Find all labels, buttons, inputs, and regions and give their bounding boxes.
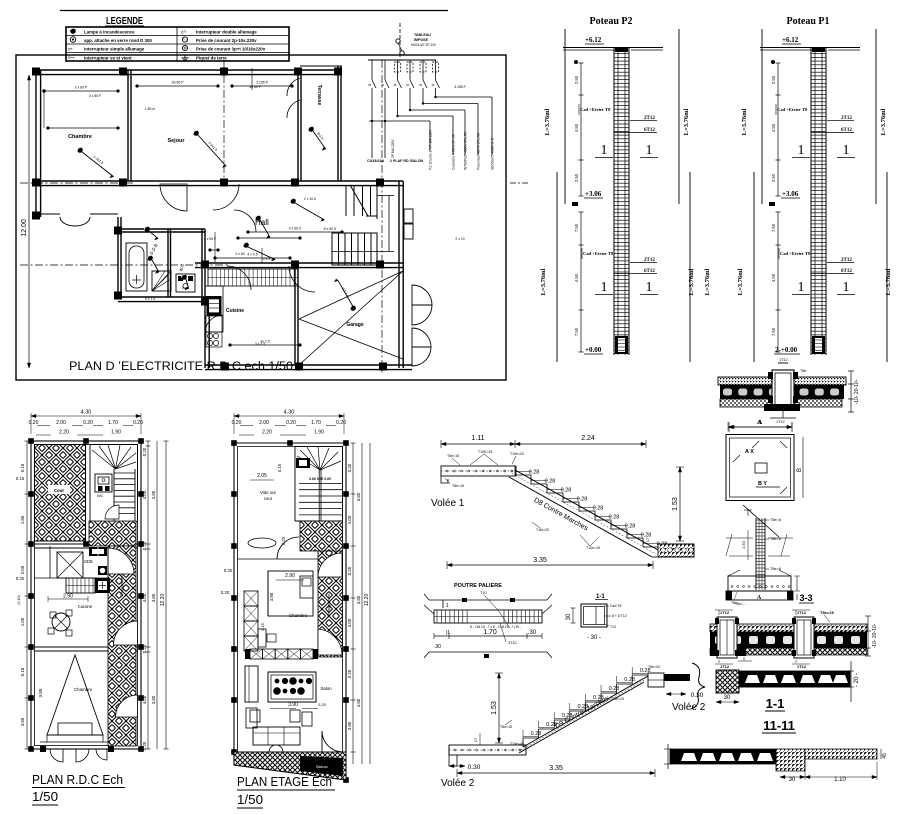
svg-text:1: 1 [601, 280, 608, 295]
svg-text:T10e=20: T10e=20 [510, 452, 524, 456]
svg-text:0.28: 0.28 [641, 533, 652, 539]
svg-text:T12: T12 [610, 625, 616, 629]
svg-text:3 x 60 F: 3 x 60 F [89, 94, 101, 98]
svg-text:T10e=15: T10e=15 [610, 697, 624, 701]
svg-text:T10: T10 [480, 591, 487, 595]
svg-text:L=3.76ml: L=3.76ml [737, 268, 744, 295]
svg-text:Lampe à incandescence: Lampe à incandescence [84, 30, 135, 35]
svg-text:3.155 P: 3.155 P [256, 81, 268, 85]
svg-text:0.30: 0.30 [468, 764, 481, 771]
svg-text:1T12: 1T12 [720, 610, 730, 615]
svg-text:Dégagement: Dégagement [326, 593, 331, 617]
svg-text:0.20: 0.20 [336, 420, 346, 426]
svg-text:4.30: 4.30 [284, 410, 295, 416]
svg-text:0.20: 0.20 [224, 568, 233, 573]
svg-text:T8e=8: T8e=8 [770, 518, 781, 522]
svg-text:Volée 2: Volée 2 [441, 778, 475, 789]
svg-text:1: 1 [646, 280, 653, 295]
svg-text:4 x 0.5: 4 x 0.5 [247, 253, 257, 257]
svg-text:4 x 66 S: 4 x 66 S [289, 227, 302, 231]
svg-text:Cad +Etrier T8: Cad +Etrier T8 [780, 251, 811, 256]
svg-text:4.30: 4.30 [81, 410, 92, 416]
svg-text:2.00: 2.00 [56, 420, 66, 426]
svg-text:0.28: 0.28 [545, 479, 556, 485]
svg-text:0.20: 0.20 [347, 669, 352, 678]
svg-text:0.20: 0.20 [232, 420, 242, 426]
svg-text:4 x 50 F: 4 x 50 F [204, 237, 216, 241]
svg-text:0.20: 0.20 [29, 420, 39, 426]
svg-text:7.50: 7.50 [771, 327, 776, 336]
svg-text:1.00: 1.00 [20, 617, 25, 626]
svg-text:A X: A X [745, 449, 754, 455]
svg-text:TABLEAU: TABLEAU [414, 33, 431, 37]
svg-text:2-+0.00: 2-+0.00 [775, 346, 798, 354]
svg-text:T8e=20: T8e=20 [648, 665, 660, 669]
svg-text:.30: .30 [434, 644, 441, 650]
svg-text:0.28: 0.28 [609, 686, 620, 692]
svg-text:A: A [757, 595, 762, 601]
svg-text:3T12: 3T12 [508, 641, 517, 645]
svg-text:T8e: T8e [731, 601, 737, 605]
svg-text:Poteau P2: Poteau P2 [589, 16, 632, 27]
svg-text:0.20: 0.20 [133, 420, 143, 426]
svg-text:INTERRUP 4000V 2PL.RC: INTERRUP 4000V 2PL.RC [464, 131, 468, 170]
svg-text:A: A [758, 420, 763, 426]
svg-text:4.00: 4.00 [142, 490, 147, 499]
svg-text:Interrupteur double allumage: Interrupteur double allumage [196, 30, 257, 35]
svg-text:+0.00: +0.00 [585, 346, 602, 354]
svg-text:WC: WC [97, 494, 104, 498]
svg-text:Cad T8: Cad T8 [610, 604, 621, 608]
svg-text:3.80: 3.80 [356, 595, 361, 604]
svg-text:T8e=15: T8e=15 [452, 484, 464, 488]
svg-text:1T12: 1T12 [797, 610, 807, 615]
svg-text:30: 30 [724, 695, 731, 701]
svg-text:Volée 2: Volée 2 [672, 702, 706, 713]
svg-text:|1: |1 [446, 630, 450, 636]
svg-text:0.30: 0.30 [691, 692, 704, 699]
svg-text:T10e=15: T10e=15 [586, 546, 600, 550]
svg-text:2.90: 2.90 [63, 594, 73, 600]
svg-text:Terrasse: Terrasse [316, 85, 322, 106]
svg-text:SECOURT 4000P 2+C: SECOURT 4000P 2+C [491, 137, 495, 170]
svg-text:Chambre: Chambre [289, 613, 308, 618]
svg-text:1.70: 1.70 [311, 420, 321, 426]
svg-text:3.80: 3.80 [151, 695, 156, 704]
svg-text:5 x 1.5: 5 x 1.5 [145, 297, 155, 301]
svg-text:-10- 20-10-: -10- 20-10- [854, 379, 860, 404]
svg-text:T8e=15: T8e=15 [820, 610, 834, 615]
svg-text:Cuisiniere 4.65KV 2P+20: Cuisiniere 4.65KV 2P+20 [452, 134, 456, 170]
svg-text:3x 2.5: 3x 2.5 [260, 340, 269, 344]
svg-text:2 x 10: 2 x 10 [455, 237, 464, 241]
svg-text:4.50: 4.50 [574, 123, 579, 132]
svg-text:P.C.Douche 2PVT 16A 220V: P.C.Douche 2PVT 16A 220V [429, 129, 433, 170]
svg-text:45: 45 [406, 83, 410, 87]
svg-text:T10E=15: T10E=15 [478, 450, 492, 454]
svg-text:Volée 1: Volée 1 [431, 498, 465, 509]
svg-text:T8e=8: T8e=8 [770, 537, 781, 541]
svg-text:0.20: 0.20 [221, 590, 230, 595]
svg-text:MODULE 2P-220: MODULE 2P-220 [411, 43, 436, 47]
svg-text:12.00: 12.00 [21, 219, 28, 237]
svg-text:1: 1 [601, 143, 608, 158]
svg-text:(0.10): (0.10) [17, 595, 21, 604]
svg-text:4.00: 4.00 [347, 515, 352, 524]
svg-text:Cuisine: Cuisine [78, 604, 93, 609]
svg-text:Balcon: Balcon [316, 765, 328, 769]
svg-text:Cad +Etrier T8: Cad +Etrier T8 [583, 251, 614, 256]
svg-text:3.85: 3.85 [20, 717, 25, 726]
svg-text:2 x 0.5: 2 x 0.5 [263, 257, 273, 261]
svg-text:2.20: 2.20 [262, 430, 272, 436]
svg-text:+6.12: +6.12 [585, 36, 602, 44]
svg-text:45: 45 [419, 83, 423, 87]
svg-text:app. attache en verre rond D: app. attache en verre rond D 300 [84, 38, 152, 43]
svg-text:2.50: 2.50 [574, 75, 579, 84]
svg-text:3.85: 3.85 [38, 688, 43, 697]
svg-text:2 x 60: 2 x 60 [235, 252, 244, 256]
svg-text:1: 1 [798, 143, 805, 158]
svg-text:1.10: 1.10 [834, 777, 846, 783]
svg-text:0.20: 0.20 [142, 644, 147, 653]
svg-text:1.50: 1.50 [741, 540, 746, 549]
svg-text:7.50: 7.50 [771, 223, 776, 232]
svg-text:+6.12: +6.12 [782, 36, 799, 44]
svg-text:σⁿ: σⁿ [68, 47, 73, 52]
svg-text:1-1: 1-1 [766, 696, 785, 711]
svg-text:1T12: 1T12 [776, 420, 785, 424]
svg-text:2.90: 2.90 [285, 573, 295, 579]
svg-text:0.28: 0.28 [609, 515, 620, 521]
svg-text:0.28: 0.28 [593, 506, 604, 512]
svg-text:-10- 20-10-: -10- 20-10- [872, 623, 878, 648]
svg-text:17: 17 [645, 537, 650, 542]
svg-text:0.15: 0.15 [260, 622, 265, 631]
svg-text:2.00: 2.00 [259, 420, 269, 426]
svg-text:4.50: 4.50 [574, 273, 579, 282]
svg-text:Chambre: Chambre [74, 687, 93, 692]
svg-text:T8e: T8e [800, 369, 807, 373]
svg-text:45: 45 [381, 83, 385, 87]
svg-text:2.05: 2.05 [257, 473, 267, 479]
svg-text:3.35: 3.35 [533, 557, 547, 564]
svg-text:0.28: 0.28 [561, 488, 572, 494]
svg-text:3.80: 3.80 [356, 698, 361, 707]
svg-text:0.28: 0.28 [529, 470, 540, 476]
svg-text:0.20: 0.20 [318, 702, 327, 707]
svg-text:CU3A/16A: CU3A/16A [367, 159, 385, 163]
svg-text:2.50: 2.50 [574, 173, 579, 182]
svg-text:1: 1 [646, 143, 653, 158]
svg-text:11-11: 11-11 [763, 718, 795, 733]
svg-text:L=3.76ml: L=3.76ml [704, 268, 711, 295]
svg-text:0.28: 0.28 [624, 677, 635, 683]
svg-text:Cad +Etrier T8: Cad +Etrier T8 [777, 107, 808, 112]
svg-text:4.50: 4.50 [771, 123, 776, 132]
svg-text:B Y: B Y [758, 481, 767, 487]
svg-text:Interrupteur va et vient: Interrupteur va et vient [84, 55, 132, 60]
svg-text:Piquet de terre: Piquet de terre [196, 55, 227, 60]
svg-text:1.80 m: 1.80 m [145, 107, 156, 111]
svg-text:3 x 60 P: 3 x 60 P [75, 86, 88, 90]
svg-text:1.53: 1.53 [672, 497, 679, 511]
svg-text:Chambre: Chambre [68, 134, 92, 140]
svg-text:0.20: 0.20 [142, 447, 147, 456]
svg-text:2.05: 2.05 [20, 565, 25, 574]
svg-text:1: 1 [843, 280, 850, 295]
svg-text:1T12: 1T12 [797, 664, 807, 669]
svg-text:2.50: 2.50 [771, 173, 776, 182]
svg-text:0.20: 0.20 [347, 566, 352, 575]
svg-text:L=3.76ml: L=3.76ml [540, 268, 547, 295]
svg-text:2.20: 2.20 [59, 430, 69, 436]
svg-text:4.00: 4.00 [142, 593, 147, 602]
svg-text:1: 1 [446, 603, 449, 609]
svg-text:3S 60 P: 3S 60 P [171, 81, 184, 85]
svg-text:B: B [797, 468, 803, 472]
svg-text:1.70: 1.70 [108, 420, 118, 426]
svg-text:7.50: 7.50 [574, 223, 579, 232]
svg-text:3.80: 3.80 [356, 492, 361, 501]
svg-text:L=3.76ml: L=3.76ml [544, 108, 551, 135]
svg-text:Poteau P1: Poteau P1 [786, 16, 829, 27]
svg-text:σᵀⁿ: σᵀⁿ [181, 30, 187, 35]
svg-text:+3.06: +3.06 [585, 190, 602, 198]
svg-text:SDB: SDB [84, 559, 93, 564]
svg-text:1.70: 1.70 [483, 629, 497, 636]
svg-text:Cuisine: Cuisine [226, 308, 244, 314]
svg-text:0.20: 0.20 [83, 420, 93, 426]
svg-text:.30: .30 [528, 630, 537, 636]
svg-text:Garage: Garage [346, 322, 363, 328]
svg-text:0.20: 0.20 [142, 541, 147, 550]
svg-text:3.80: 3.80 [151, 593, 156, 602]
svg-text:Sejour: Sejour [167, 138, 185, 144]
svg-text:1: 1 [843, 143, 850, 158]
svg-text:Cad +Etrier T8: Cad +Etrier T8 [580, 107, 611, 112]
svg-text:POUTRE PALIERE: POUTRE PALIERE [454, 583, 502, 589]
svg-text:0.28: 0.28 [625, 524, 636, 530]
svg-text:0.15: 0.15 [277, 463, 282, 472]
svg-text:45: 45 [882, 753, 888, 759]
svg-text:30: 30 [566, 613, 572, 620]
svg-text:1.53: 1.53 [491, 701, 498, 715]
svg-text:17: 17 [473, 737, 478, 742]
svg-text:PLAN ETAGE Ech: PLAN ETAGE Ech [237, 774, 332, 789]
svg-text:Prise.Haut 400TV 2PL.RC: Prise.Haut 400TV 2PL.RC [477, 132, 481, 170]
svg-text:1T12: 1T12 [720, 664, 730, 669]
svg-text:0.20: 0.20 [16, 576, 25, 581]
svg-text:L=3.76ml: L=3.76ml [741, 108, 748, 135]
svg-text:T-8e=20: T-8e=20 [536, 528, 549, 532]
svg-text:0.15: 0.15 [20, 463, 25, 472]
svg-text:3S 60 F: 3S 60 F [249, 85, 261, 89]
svg-text:PLAN R.D.C Ech: PLAN R.D.C Ech [32, 772, 123, 787]
svg-text:7.50: 7.50 [574, 327, 579, 336]
svg-text:0.20: 0.20 [142, 741, 147, 750]
svg-text:45: 45 [431, 83, 435, 87]
svg-text:3-3: 3-3 [799, 593, 812, 603]
svg-text:L=3.76ml: L=3.76ml [885, 268, 892, 295]
svg-text:2 x 10.5: 2 x 10.5 [304, 197, 316, 201]
svg-text:1/50: 1/50 [32, 789, 58, 804]
svg-text:1.85: 1.85 [20, 515, 25, 524]
svg-text:Interrupteur simple allumage: Interrupteur simple allumage [84, 47, 145, 52]
svg-text:4.00: 4.00 [142, 695, 147, 704]
svg-text:3.80: 3.80 [347, 721, 352, 730]
svg-text:L=3.76ml: L=3.76ml [683, 108, 690, 135]
svg-text:1: 1 [798, 280, 805, 295]
svg-text:3.80: 3.80 [269, 592, 274, 601]
svg-text:0.60 0.30 0.60: 0.60 0.30 0.60 [309, 477, 331, 481]
svg-text:1/50: 1/50 [237, 792, 263, 807]
svg-text:2.50: 2.50 [771, 75, 776, 84]
svg-text:L=3.76ml: L=3.76ml [688, 268, 695, 295]
svg-text:4.00: 4.00 [347, 618, 352, 627]
svg-text:3.80: 3.80 [151, 490, 156, 499]
svg-text:+3.06: +3.06 [782, 190, 799, 198]
svg-text:0.20: 0.20 [286, 420, 296, 426]
svg-text:Prise de courant 2p-10s.220v: Prise de courant 2p-10s.220v [196, 38, 257, 43]
svg-text:2.24: 2.24 [581, 435, 595, 442]
svg-text:30: 30 [789, 777, 796, 783]
svg-text:Cour: Cour [54, 488, 65, 493]
svg-text:0.15: 0.15 [16, 476, 25, 481]
svg-text:1.90: 1.90 [111, 430, 121, 436]
svg-text:T8e=15: T8e=15 [500, 725, 512, 729]
svg-text:- 30 -: - 30 - [587, 635, 601, 641]
svg-text:45: 45 [393, 83, 397, 87]
svg-text:3.35: 3.35 [549, 765, 563, 772]
svg-text:Vide sur: Vide sur [260, 490, 277, 495]
svg-text:cour: cour [264, 496, 273, 501]
svg-text:T8e=15: T8e=15 [447, 454, 459, 458]
svg-text:LEGENDE: LEGENDE [106, 15, 143, 27]
svg-text:3.155 F: 3.155 F [454, 85, 466, 89]
svg-text:0.28: 0.28 [577, 497, 588, 503]
svg-text:12.20: 12.20 [364, 594, 370, 607]
svg-text:8 x 60 S: 8 x 60 S [324, 227, 337, 231]
svg-text:Prise de courant 3p+t 10/16x22: Prise de courant 3p+t 10/16x220v [196, 47, 266, 52]
svg-text:1-1: 1-1 [596, 594, 605, 600]
svg-text:- 20 -: - 20 - [854, 673, 860, 687]
svg-text:1T12: 1T12 [779, 358, 788, 362]
svg-text:T10e=45: T10e=45 [510, 742, 524, 746]
svg-text:Salon: Salon [320, 686, 332, 691]
svg-text:4.50: 4.50 [771, 273, 776, 282]
svg-text:45: 45 [368, 83, 372, 87]
svg-text:8 + 8 T12: 8 + 8 T12 [612, 614, 627, 618]
svg-text:σ⤳: σ⤳ [68, 55, 75, 60]
svg-text:2 PLAF RD /SALON: 2 PLAF RD /SALON [390, 159, 424, 163]
svg-text:2P 16A 220V: 2P 16A 220V [391, 139, 395, 158]
svg-text:L=3.76ml: L=3.76ml [880, 108, 887, 135]
svg-text:Dégagement: Dégagement [119, 573, 124, 597]
svg-text:0.20: 0.20 [347, 463, 352, 472]
svg-text:0.18: 0.18 [20, 667, 25, 676]
svg-text:PLAN D ’ELECTRICITE R.D.C ech: PLAN D ’ELECTRICITE R.D.C ech 1/50 [69, 361, 293, 373]
svg-text:IMPOSE: IMPOSE [414, 38, 429, 42]
svg-text:3.90: 3.90 [288, 702, 298, 708]
svg-text:12.20: 12.20 [160, 594, 166, 607]
svg-text:1.90: 1.90 [314, 430, 324, 436]
svg-text:0.28: 0.28 [531, 731, 542, 737]
svg-text:1.11: 1.11 [471, 435, 484, 442]
